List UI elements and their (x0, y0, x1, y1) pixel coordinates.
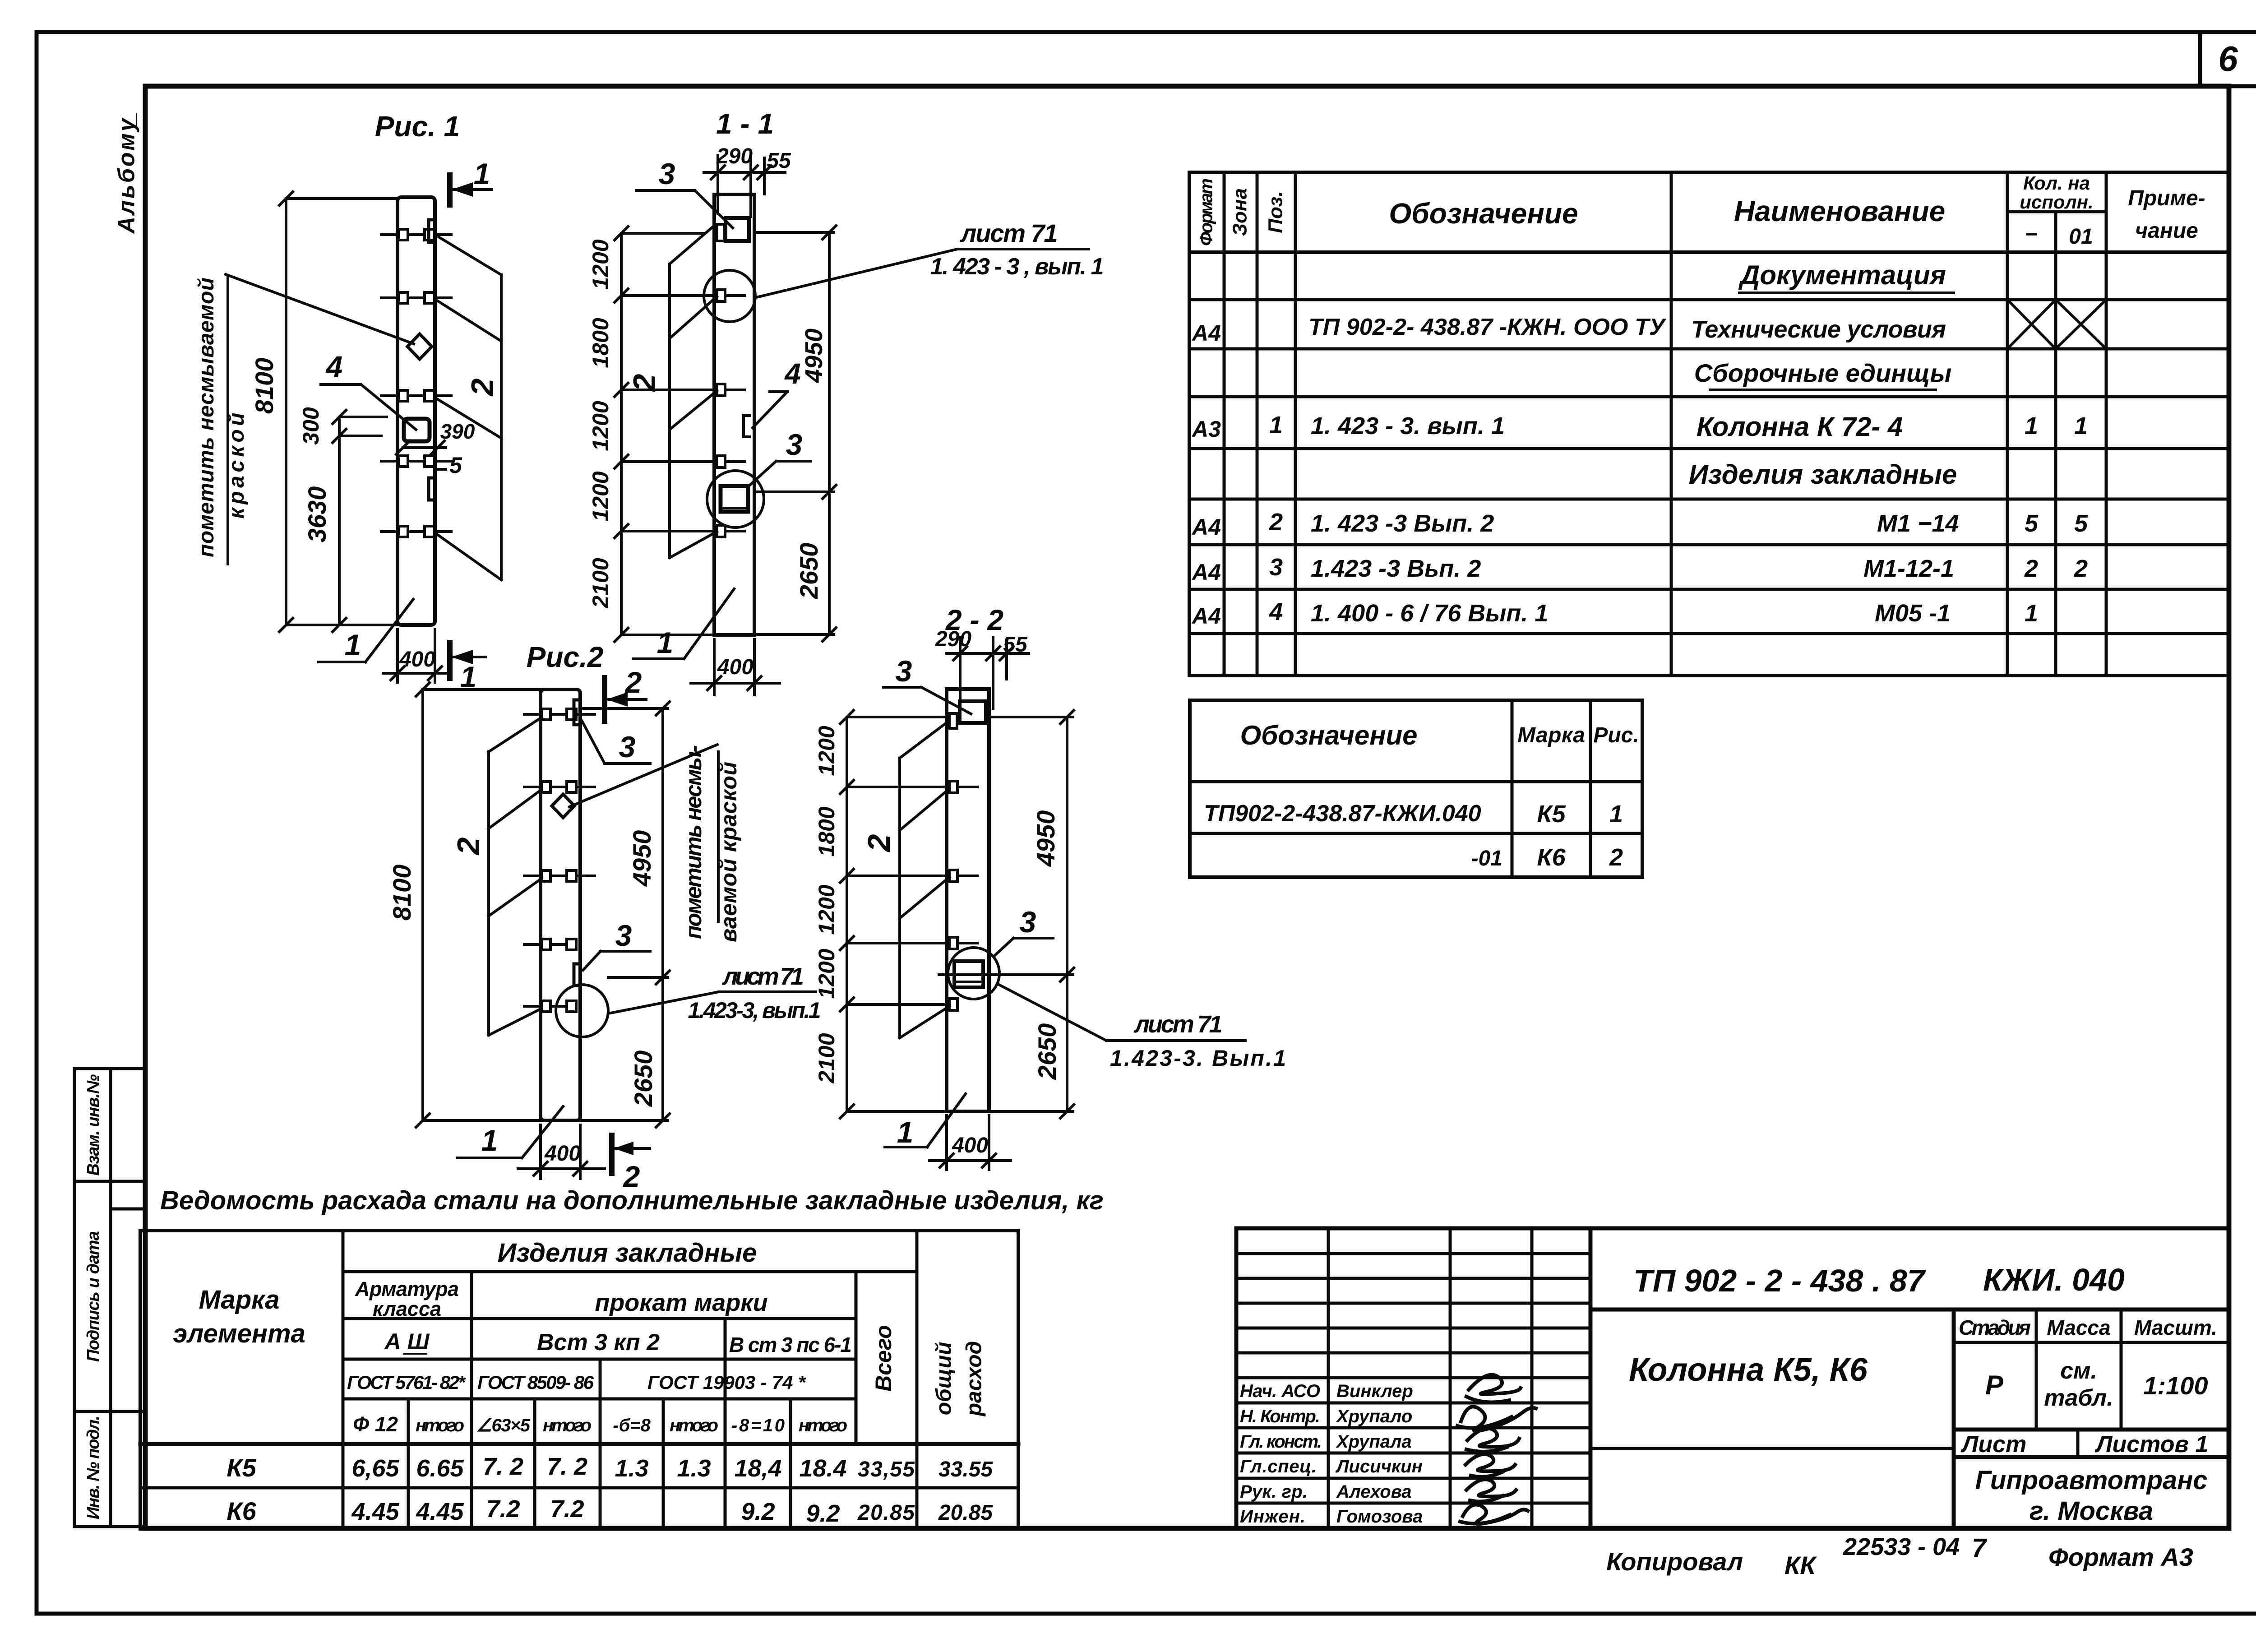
svg-text:1.3: 1.3 (615, 1455, 648, 1482)
svg-text:ваемой краской: ваемой краской (716, 762, 741, 942)
svg-text:нтого: нтого (670, 1416, 718, 1435)
right edge plate mid (574, 964, 580, 986)
svg-text:20.85: 20.85 (938, 1501, 993, 1525)
svg-text:1200: 1200 (814, 726, 839, 776)
name cell bottom (1590, 1447, 1954, 1450)
svg-text:1200: 1200 (814, 949, 839, 999)
svg-text:1. 423 - 3 , вып. 1: 1. 423 - 3 , вып. 1 (930, 254, 1104, 280)
svg-text:1: 1 (474, 157, 490, 190)
svg-text:Ф 12: Ф 12 (353, 1412, 398, 1436)
svg-text:Кол. на: Кол. на (2023, 172, 2090, 194)
svg-text:∠63×5: ∠63×5 (476, 1416, 531, 1435)
svg-text:М1 −14: М1 −14 (1877, 510, 1959, 537)
doc number cell (1590, 1308, 2229, 1312)
svg-text:1800: 1800 (588, 318, 613, 368)
paint mark diamond (407, 334, 432, 359)
svg-text:18.4: 18.4 (799, 1455, 846, 1482)
svg-text:1 - 1: 1 - 1 (716, 107, 774, 140)
svg-text:Масшт.: Масшт. (2134, 1316, 2217, 1339)
svg-text:Винклер: Винклер (1336, 1381, 1413, 1401)
column 1-1 body (714, 194, 754, 635)
svg-text:2: 2 (1269, 509, 1283, 536)
multi-leader band 2 (2-2) (898, 758, 901, 1038)
cap plate pos.3 (2-2) (960, 701, 986, 723)
svg-text:расход: расход (962, 1341, 986, 1417)
svg-text:класса: класса (373, 1297, 441, 1320)
svg-text:4.45: 4.45 (416, 1498, 464, 1525)
svg-text:К5: К5 (227, 1453, 256, 1482)
spec table outline (1189, 172, 2229, 676)
sheet number box (2200, 32, 2256, 86)
svg-text:К5: К5 (1537, 801, 1566, 828)
svg-text:7. 2: 7. 2 (547, 1453, 587, 1480)
svg-text:прокат марки: прокат марки (595, 1289, 767, 1316)
svg-text:2100: 2100 (814, 1033, 839, 1083)
left plate level 5 (697, 525, 744, 537)
svg-text:8100: 8100 (388, 865, 416, 921)
svg-text:3: 3 (615, 919, 632, 952)
svg-text:Изделия закладные: Изделия закладные (498, 1238, 757, 1268)
svg-text:22533 - 04: 22533 - 04 (1843, 1533, 1960, 1560)
svg-text:6,65: 6,65 (351, 1455, 399, 1482)
svg-text:-01: -01 (1471, 847, 1502, 870)
svg-text:К6: К6 (1537, 844, 1566, 871)
svg-text:1: 1 (481, 1124, 498, 1157)
svg-text:нтого: нтого (799, 1416, 847, 1435)
svg-text:2: 2 (2024, 555, 2038, 582)
svg-text:18,4: 18,4 (734, 1455, 781, 1482)
svg-text:см.: см. (2060, 1358, 2097, 1384)
left dim chain (2-2) (846, 717, 848, 1111)
svg-text:20.85: 20.85 (857, 1501, 915, 1525)
svg-text:ТП 902 - 2 - 438 . 87: ТП 902 - 2 - 438 . 87 (1633, 1263, 1926, 1298)
svg-text:3: 3 (659, 157, 675, 190)
svg-text:3: 3 (1269, 554, 1283, 581)
svg-text:чание: чание (2135, 219, 2198, 243)
svg-text:КК: КК (1784, 1551, 1817, 1579)
svg-text:4.45: 4.45 (351, 1498, 399, 1525)
svg-text:А4: А4 (1191, 560, 1221, 585)
svg-text:лист 71: лист 71 (960, 219, 1058, 247)
svg-text:М1-12-1: М1-12-1 (1863, 555, 1954, 582)
paint mark diamond K6 (552, 794, 574, 818)
svg-text:2: 2 (627, 374, 662, 392)
left plate level 4 (2-2) (918, 937, 977, 949)
dim 300/3630 line (338, 417, 341, 625)
svg-text:В ст 3 пс 6-1: В ст 3 пс 6-1 (729, 1333, 852, 1356)
svg-text:Ведомость расхада стали на: Ведомость расхада стали на дополнительны… (160, 1186, 1104, 1215)
svg-text:390: 390 (440, 420, 475, 443)
left plate level 3 (2-2) (929, 870, 977, 882)
svg-text:2: 2 (465, 378, 500, 397)
dim 400 bottom (Рис.2) (539, 1125, 542, 1179)
svg-text:1200: 1200 (814, 884, 839, 935)
svg-text:1. 423 - 3. вып. 1: 1. 423 - 3. вып. 1 (1311, 412, 1505, 440)
svg-text:4950: 4950 (628, 830, 656, 887)
title rows left section (1236, 1252, 1590, 1255)
svg-text:Гл.спец.: Гл.спец. (1240, 1457, 1317, 1476)
leader paint note K6 (569, 745, 717, 807)
top dim line (2-2) (947, 652, 1029, 655)
steel verticals (342, 1231, 345, 1529)
svg-text:Хрупало: Хрупало (1336, 1407, 1412, 1426)
svg-text:1:100: 1:100 (2143, 1371, 2208, 1400)
top dim line (704, 171, 785, 174)
svg-text:Лисичкин: Лисичкин (1335, 1457, 1423, 1476)
steel rows (343, 1270, 917, 1273)
svg-text:2650: 2650 (795, 543, 823, 600)
plates level 3 (524, 870, 595, 881)
dim 8100 line (285, 199, 287, 625)
svg-text:Изделия закладные: Изделия закладные (1689, 459, 1957, 490)
svg-text:7: 7 (1972, 1533, 1988, 1563)
svg-text:1: 1 (1269, 412, 1283, 439)
steel table outline (140, 1231, 1018, 1529)
svg-text:2: 2 (451, 837, 486, 856)
svg-text:4: 4 (1269, 598, 1283, 625)
svg-text:табл.: табл. (2044, 1385, 2113, 1411)
svg-text:Листов 1: Листов 1 (2094, 1431, 2209, 1458)
right dim 4950/2650 (2-2) (1066, 717, 1068, 1111)
svg-text:-8=10: -8=10 (731, 1416, 785, 1435)
svg-text:общий: общий (932, 1342, 956, 1416)
svg-text:Хрупала: Хрупала (1336, 1432, 1412, 1452)
top right edge plate (574, 700, 580, 725)
svg-text:7.2: 7.2 (550, 1495, 584, 1522)
svg-text:пометить несмываемой: пометить несмываемой (194, 278, 218, 557)
svg-text:Масса: Масса (2047, 1316, 2110, 1339)
svg-text:−: − (2025, 222, 2038, 246)
svg-text:Алехова: Алехова (1336, 1482, 1412, 1502)
svg-text:Гипроавтотранс: Гипроавтотранс (1975, 1466, 2207, 1495)
svg-text:9.2: 9.2 (741, 1498, 775, 1525)
svg-text:1200: 1200 (588, 239, 613, 289)
svg-text:Инв. № подл.: Инв. № подл. (84, 1416, 103, 1519)
svg-text:исполн.: исполн. (2020, 191, 2094, 213)
title verticals left section (1327, 1228, 1330, 1528)
column K6 body (541, 689, 580, 1120)
svg-text:1800: 1800 (814, 806, 839, 856)
svg-text:1.3: 1.3 (677, 1455, 711, 1482)
svg-text:1.423 -3 Вьп. 2: 1.423 -3 Вьп. 2 (1311, 555, 1481, 582)
left margin boxes (74, 1069, 145, 1527)
svg-text:5: 5 (2074, 510, 2088, 537)
svg-text:400: 400 (952, 1134, 988, 1157)
section mark 1 top (447, 175, 453, 205)
right dim 4950/2650 (Рис.2) (661, 708, 664, 1120)
bottom extension of 8100 (286, 624, 398, 626)
svg-text:нтого: нтого (543, 1416, 592, 1435)
left plate level 2 (2-2) (929, 781, 977, 793)
lower right edge plate (429, 478, 435, 500)
svg-text:3: 3 (619, 730, 636, 764)
svg-text:3630: 3630 (303, 486, 331, 543)
multi-leader band 2 (1-1) (668, 264, 671, 558)
embedded plates level 3 (381, 390, 451, 401)
svg-text:1: 1 (2025, 600, 2038, 627)
svg-text:Обозначение: Обозначение (1389, 197, 1578, 230)
svg-text:А4: А4 (1191, 514, 1221, 540)
svg-text:1: 1 (657, 626, 674, 659)
svg-text:ГОСТ 8509- 86: ГОСТ 8509- 86 (477, 1372, 594, 1393)
svg-text:пометить несмы-: пометить несмы- (681, 745, 706, 939)
svg-text:2650: 2650 (629, 1050, 657, 1107)
callout circle bottom with plate M05 (707, 471, 764, 528)
svg-text:33.55: 33.55 (938, 1458, 993, 1481)
callout circle top (704, 270, 755, 322)
svg-text:ГОСТ 5761- 82*: ГОСТ 5761- 82* (347, 1372, 466, 1393)
multi-leader band 2 (500, 275, 503, 580)
svg-text:ГОСТ 19903 - 74 *: ГОСТ 19903 - 74 * (647, 1372, 806, 1393)
svg-text:Нач. АСО: Нач. АСО (1240, 1381, 1320, 1401)
svg-text:А3: А3 (1191, 416, 1221, 442)
spec verticals (1223, 172, 1226, 676)
svg-text:7.2: 7.2 (486, 1495, 520, 1522)
svg-text:Марка: Марка (1517, 723, 1585, 747)
column K5 body (398, 197, 435, 625)
svg-text:Рис.: Рис. (1593, 723, 1639, 747)
plates level 4 (524, 939, 576, 950)
svg-text:Колонна К 72- 4: Колонна К 72- 4 (1697, 412, 1903, 442)
svg-text:2: 2 (861, 834, 897, 852)
column 2-2 body (947, 689, 989, 1111)
dim 400 bottom (396, 629, 399, 682)
svg-text:55: 55 (767, 149, 791, 173)
cap plate pos.3 (726, 218, 749, 241)
svg-text:Рук. гр.: Рук. гр. (1240, 1482, 1308, 1502)
svg-text:Приме-: Приме- (2128, 186, 2205, 210)
svg-text:1: 1 (897, 1115, 914, 1149)
svg-text:3: 3 (1020, 905, 1036, 939)
embedded plates level 4 (381, 456, 451, 467)
svg-text:Рис.2: Рис.2 (527, 641, 604, 673)
svg-text:2: 2 (624, 666, 642, 699)
callout circle (Рис.2) (556, 985, 608, 1037)
svg-text:Взам. инв.№: Взам. инв.№ (84, 1074, 103, 1176)
dim 8100 K6 (421, 689, 424, 1120)
plates level 1 (524, 709, 595, 720)
svg-text:Вст 3 кп 2: Вст 3 кп 2 (537, 1329, 660, 1356)
svg-text:400: 400 (399, 648, 435, 671)
svg-text:ТП 902-2- 438.87 -КЖН. ООО ТУ: ТП 902-2- 438.87 -КЖН. ООО ТУ (1308, 314, 1667, 340)
svg-text:1200: 1200 (588, 401, 613, 451)
embedded plates level 5 (381, 526, 451, 537)
svg-text:4: 4 (325, 350, 343, 383)
svg-text:Поз.: Поз. (1265, 191, 1287, 233)
left plate level 2 (697, 290, 744, 301)
svg-text:А4: А4 (1191, 320, 1221, 346)
svg-text:2: 2 (1609, 844, 1623, 871)
svg-text:г. Москва: г. Москва (2029, 1496, 2153, 1526)
svg-text:1: 1 (1609, 801, 1623, 828)
bottom extension K6 (423, 1119, 541, 1122)
svg-text:Формат А3: Формат А3 (2048, 1543, 2193, 1571)
svg-text:Гомозова: Гомозова (1336, 1507, 1423, 1527)
crossed qty cells (2007, 300, 2106, 349)
svg-text:лист 71: лист 71 (1133, 1011, 1223, 1038)
svg-text:33,55: 33,55 (858, 1458, 915, 1481)
svg-text:Наименование: Наименование (1734, 195, 1945, 227)
svg-text:Технические условия: Технические условия (1691, 316, 1946, 343)
svg-text:Н. Контр.: Н. Контр. (1240, 1407, 1320, 1426)
svg-text:9.2: 9.2 (806, 1500, 840, 1527)
svg-text:элемента: элемента (173, 1319, 305, 1348)
signature scribbles (1457, 1375, 1536, 1524)
svg-text:4950: 4950 (1031, 810, 1060, 867)
right edge notch pos.4 (744, 416, 749, 437)
svg-text:Копировал: Копировал (1606, 1547, 1743, 1576)
top right edge plate (429, 220, 435, 242)
section mark 2 bottom (609, 1135, 615, 1173)
multi-leader band 2 (Рис.2) (487, 752, 490, 1035)
svg-text:1. 423 -3 Вып. 2: 1. 423 -3 Вып. 2 (1311, 510, 1494, 537)
svg-text:1: 1 (2074, 412, 2088, 440)
title block outline (1236, 1228, 2229, 1528)
section mark 2 top (602, 678, 607, 721)
svg-text:1. 400 - 6 / 76 Вып. 1: 1. 400 - 6 / 76 Вып. 1 (1311, 600, 1548, 627)
svg-text:Лист: Лист (1960, 1431, 2027, 1458)
svg-text:7. 2: 7. 2 (483, 1453, 523, 1480)
svg-text:1: 1 (2025, 412, 2038, 440)
svg-text:400: 400 (717, 655, 754, 679)
svg-text:лист 71: лист 71 (721, 963, 804, 990)
svg-text:400: 400 (544, 1142, 581, 1166)
svg-text:Формат: Формат (1197, 178, 1216, 246)
svg-text:4950: 4950 (800, 329, 828, 383)
dim 400 bottom (1-1) (713, 639, 716, 695)
svg-text:Подпись и дата: Подпись и дата (84, 1231, 103, 1362)
svg-text:2100: 2100 (588, 558, 613, 608)
svg-text:-б=8: -б=8 (613, 1416, 651, 1435)
svg-text:3: 3 (896, 654, 912, 688)
svg-text:1200: 1200 (588, 471, 613, 521)
svg-text:4: 4 (784, 357, 801, 390)
svg-text:8100: 8100 (250, 358, 278, 414)
svg-text:1.423-3, вып.1: 1.423-3, вып.1 (688, 998, 821, 1023)
plates level 2 (524, 782, 595, 792)
svg-text:2650: 2650 (1033, 1023, 1061, 1080)
svg-text:ТП902-2-438.87-КЖИ.040: ТП902-2-438.87-КЖИ.040 (1204, 801, 1481, 827)
svg-text:2: 2 (2074, 555, 2088, 582)
svg-text:Сборочные единщы: Сборочные единщы (1694, 359, 1952, 387)
svg-text:290: 290 (716, 144, 753, 168)
svg-text:6.65: 6.65 (416, 1455, 464, 1482)
svg-text:Стадия: Стадия (1959, 1316, 2031, 1339)
svg-text:Колонна К5, К6: Колонна К5, К6 (1629, 1352, 1868, 1388)
stage section (1952, 1310, 1956, 1528)
spec header split (2007, 210, 2106, 213)
svg-text:1: 1 (345, 628, 361, 662)
embedded plates level 2 (381, 292, 451, 303)
svg-text:нтого: нтого (416, 1416, 464, 1435)
svg-text:Р: Р (1985, 1370, 2004, 1400)
svg-text:6: 6 (2218, 39, 2238, 79)
svg-text:5: 5 (2025, 510, 2039, 537)
svg-text:А4: А4 (1191, 603, 1221, 629)
svg-text:1.423-3. Вып.1: 1.423-3. Вып.1 (1110, 1046, 1286, 1071)
svg-text:Инжен.: Инжен. (1240, 1507, 1305, 1527)
cap left notch (717, 224, 724, 241)
embedded plates level 1 (381, 229, 451, 240)
spec rows (1189, 250, 2229, 254)
svg-text:Обозначение: Обозначение (1240, 720, 1417, 750)
left plate level 3 (697, 384, 744, 396)
callout circle (2-2) with plate M05 (948, 948, 999, 999)
svg-text:Документация: Документация (1738, 260, 1946, 290)
svg-text:Марка: Марка (199, 1285, 279, 1314)
leader paint note (226, 274, 414, 344)
svg-text:М05 -1: М05 -1 (1875, 600, 1951, 627)
svg-text:5: 5 (449, 453, 462, 478)
svg-text:А Ш: А Ш (384, 1329, 430, 1354)
svg-text:Всего: Всего (871, 1325, 896, 1392)
section mark 1 bottom (447, 643, 453, 678)
svg-text:Зона: Зона (1229, 188, 1251, 236)
left plate level 4 (697, 456, 744, 467)
left plate level 5 (2-2) (918, 999, 957, 1010)
svg-text:К6: К6 (227, 1497, 256, 1525)
svg-text:Рис. 1: Рис. 1 (375, 110, 460, 143)
left dim chain line (620, 233, 623, 635)
right dim 4950/2650 (828, 232, 831, 634)
svg-text:КЖИ. 040: КЖИ. 040 (1983, 1262, 2125, 1297)
plates level 5 (524, 1001, 576, 1012)
svg-text:Гл. конст.: Гл. конст. (1240, 1432, 1322, 1452)
svg-text:300: 300 (298, 407, 324, 445)
cap left notch (2-2) (949, 713, 957, 728)
svg-text:01: 01 (2069, 225, 2093, 249)
dim 400 bottom (2-2) (945, 1115, 948, 1170)
plate M05-1 pos.4 (404, 419, 430, 441)
svg-text:3: 3 (786, 428, 803, 461)
